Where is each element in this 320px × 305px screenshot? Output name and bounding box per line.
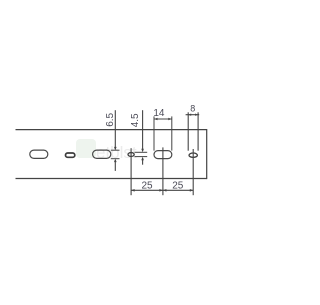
dimension 4.5 text	[130, 113, 141, 127]
svg-text:25: 25	[172, 180, 184, 191]
end slot left edge (8 dim extension)	[187, 112, 189, 150]
hole E1 bottom tangent extension (4.5 dim)	[135, 156, 148, 158]
slot S4 (14 wide obround)	[154, 151, 172, 159]
svg-text:25: 25	[141, 180, 153, 191]
dimension 6.5 line lower segment	[114, 159, 117, 171]
dimension 8 text	[190, 103, 195, 113]
dimension 6.5 text	[105, 112, 116, 126]
slot S3 top edge extension (6.5 dim)	[111, 149, 120, 151]
svg-text:6.5: 6.5	[105, 112, 116, 126]
hole E2 centerline	[192, 149, 194, 195]
dimension 6.5 line upper segment	[114, 110, 117, 150]
dimension 14 line	[154, 118, 172, 121]
hole E1 top tangent extension (4.5 dim)	[135, 151, 148, 153]
rail top line	[16, 129, 207, 131]
dimension 25 right text	[172, 180, 184, 191]
svg-text:4.5: 4.5	[130, 113, 141, 127]
dimension 4.5 line lower segment	[141, 157, 144, 165]
dimension 25 left text	[141, 180, 153, 191]
watermark logo blob	[76, 139, 137, 162]
dimension 25-25 line	[131, 189, 193, 192]
hole E2 (end slot oval)	[189, 153, 197, 157]
svg-text:14: 14	[153, 108, 165, 119]
slot S3 bottom edge extension (6.5 dim)	[111, 158, 120, 160]
slot S4 right extension line (14 dim)	[171, 116, 173, 150]
slot S3 (obround)	[93, 150, 111, 158]
hole E1 (4.5 dia)	[128, 153, 134, 157]
slot S4 centerline	[162, 147, 164, 195]
hole E1 centerline	[130, 148, 132, 195]
dimension 8 line	[186, 114, 200, 116]
slot S1 (left obround)	[30, 150, 48, 158]
rail right end cap	[206, 129, 208, 179]
rail bottom line	[16, 178, 207, 180]
slot S2 (small thick oval)	[66, 153, 75, 157]
dimension 4.5 line upper segment	[141, 110, 144, 152]
slot S4 left extension line (14 dim)	[153, 116, 155, 150]
dimension 14 text	[153, 108, 165, 119]
svg-text:8: 8	[190, 103, 195, 113]
end slot right edge (8 dim extension)	[197, 112, 199, 150]
